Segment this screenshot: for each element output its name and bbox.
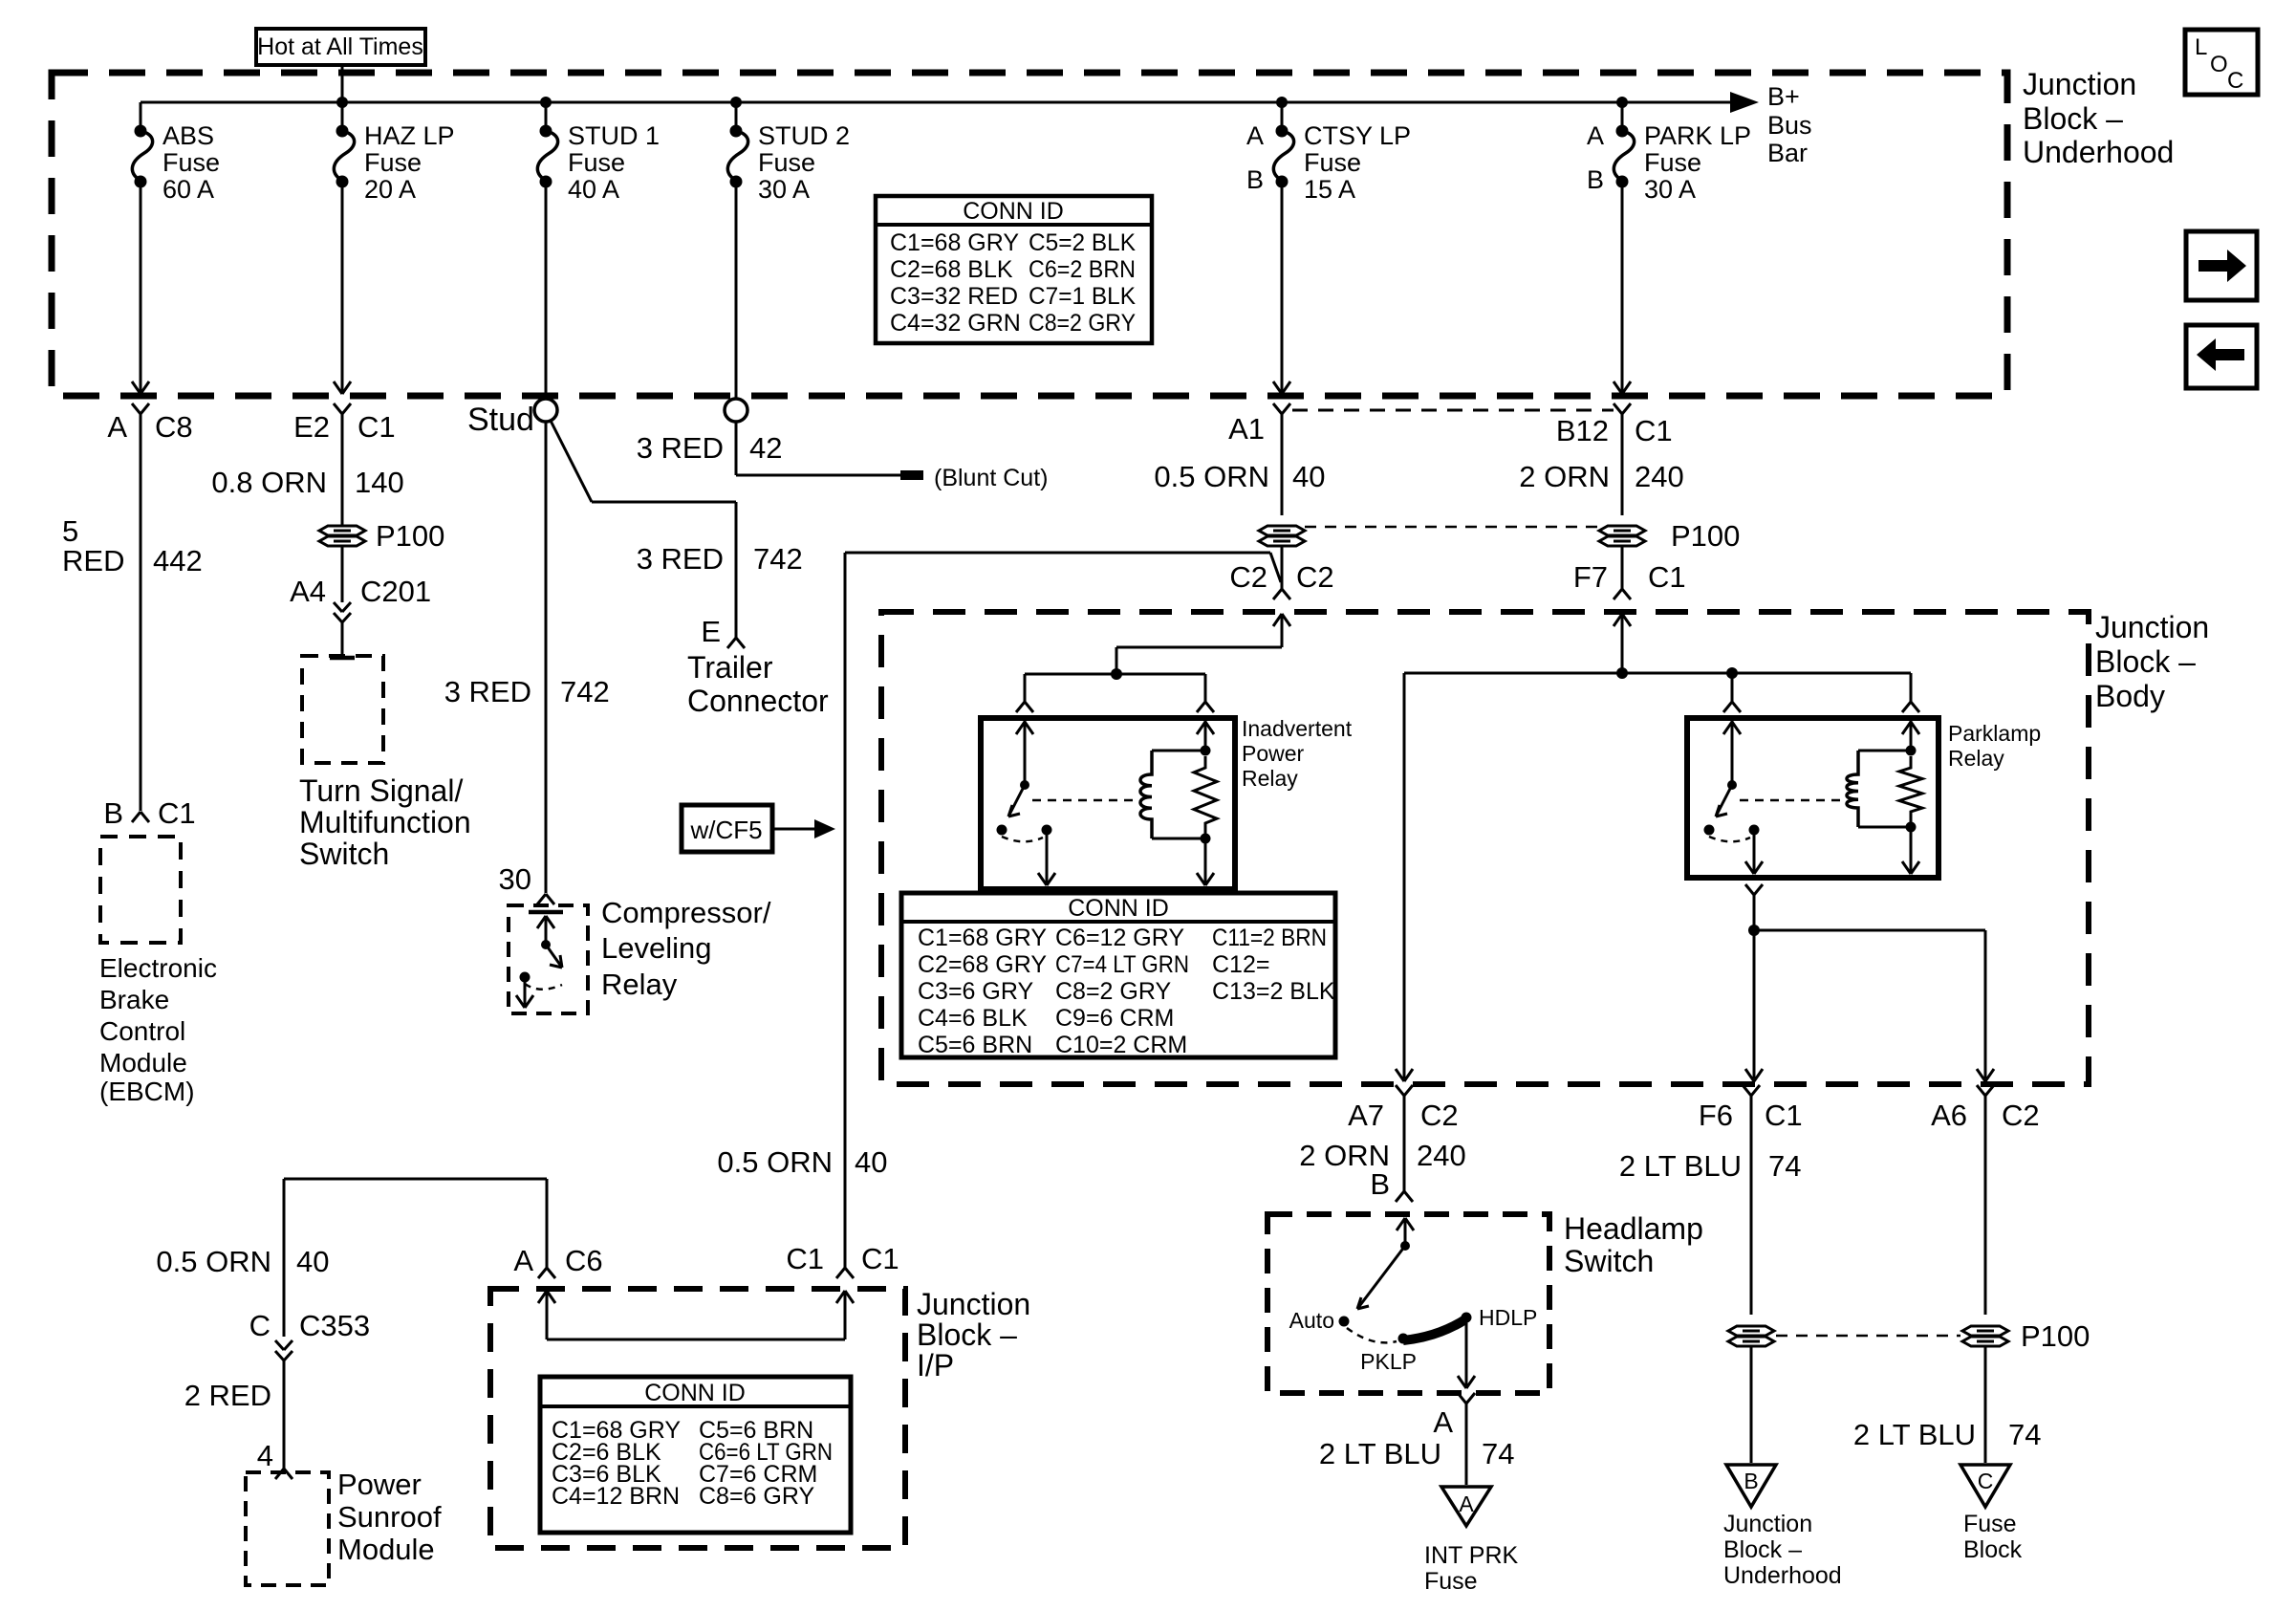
svg-text:C353: C353	[299, 1309, 370, 1342]
svg-text:A6: A6	[1931, 1099, 1967, 1132]
svg-text:C1: C1	[1765, 1099, 1803, 1132]
compressor relay movable contact	[546, 945, 562, 968]
connector C2 terminal A7 (fork)	[1396, 1085, 1404, 1096]
svg-text:Bus: Bus	[1767, 111, 1812, 140]
svg-text:F7: F7	[1573, 560, 1608, 594]
svg-text:E2: E2	[293, 410, 330, 444]
wire: 0.8 ORN below P100	[341, 546, 344, 602]
svg-text:C2=68 BLK: C2=68 BLK	[890, 256, 1013, 283]
svg-text:2 ORN: 2 ORN	[1519, 460, 1610, 493]
fuse ABS 60A	[135, 125, 147, 138]
svg-text:Fuse: Fuse	[758, 148, 815, 177]
svg-text:0.8 ORN: 0.8 ORN	[211, 466, 327, 499]
svg-text:L: L	[2195, 34, 2207, 60]
svg-text:Block: Block	[1963, 1536, 2023, 1563]
inline connector dashed link	[1292, 409, 1614, 412]
blunt cut end bar	[900, 470, 923, 480]
svg-text:C12=: C12=	[1212, 951, 1269, 978]
wire: I/P internal link	[547, 1339, 845, 1341]
svg-text:3 RED: 3 RED	[444, 675, 531, 708]
svg-text:C8=2 GRY: C8=2 GRY	[1055, 978, 1171, 1005]
svg-text:CONN ID: CONN ID	[644, 1380, 746, 1406]
svg-text:Inadvertent: Inadvertent	[1242, 716, 1353, 741]
svg-text:C1: C1	[1635, 414, 1673, 447]
svg-text:Fuse: Fuse	[1644, 148, 1701, 177]
connector C1 terminal A1 (fork)	[1273, 403, 1282, 414]
node: parklamp output junction	[1748, 925, 1760, 936]
svg-text:4: 4	[257, 1439, 273, 1472]
wire: C2 to relay feed	[1116, 646, 1282, 649]
svg-text:C2: C2	[1296, 560, 1334, 594]
svg-text:B12: B12	[1556, 414, 1609, 447]
svg-text:P100: P100	[376, 519, 444, 553]
C6 entry arrow	[538, 1291, 547, 1303]
flag box: w/CF5	[682, 805, 772, 852]
wire: bus drop to CTSY LP fuse	[1281, 102, 1284, 127]
svg-text:Electronic: Electronic	[99, 953, 217, 983]
svg-text:C4=32 GRN: C4=32 GRN	[890, 310, 1021, 337]
svg-text:Block –: Block –	[917, 1317, 1017, 1352]
node: F7 junction	[1616, 667, 1628, 679]
wire: parklamp feed bus	[1404, 672, 1911, 675]
svg-text:30 A: 30 A	[758, 175, 810, 204]
power sunroof module box (dashed)	[246, 1472, 329, 1585]
svg-text:Power: Power	[1242, 741, 1305, 766]
svg-text:A: A	[513, 1244, 533, 1277]
svg-text:C2=68 GRY: C2=68 GRY	[918, 951, 1047, 978]
contact: Auto	[1339, 1317, 1350, 1327]
connector C8 terminal A (fork)	[132, 403, 141, 414]
wire: stud1 diagonal feed	[551, 421, 592, 502]
power sunroof input fork	[275, 1469, 284, 1479]
svg-text:40: 40	[1292, 460, 1325, 493]
svg-text:C9=6 CRM: C9=6 CRM	[1055, 1005, 1174, 1032]
svg-text:PKLP: PKLP	[1360, 1349, 1417, 1374]
svg-text:C13=2 BLK: C13=2 BLK	[1212, 978, 1335, 1005]
nav box: arrow right	[2186, 231, 2257, 300]
svg-text:C5=2 BLK: C5=2 BLK	[1029, 229, 1136, 256]
svg-text:C7=4 LT GRN: C7=4 LT GRN	[1055, 951, 1189, 978]
svg-text:C6=12 GRY: C6=12 GRY	[1055, 925, 1184, 951]
svg-text:C4=6 BLK: C4=6 BLK	[918, 1005, 1028, 1032]
svg-text:Brake: Brake	[99, 985, 169, 1014]
triangle connector B	[1726, 1465, 1776, 1507]
svg-text:742: 742	[560, 675, 610, 708]
connector C1/C1 fork	[836, 1268, 845, 1278]
svg-text:w/CF5: w/CF5	[689, 816, 762, 844]
fuse STUD 1 40A	[540, 125, 552, 138]
svg-text:Junction: Junction	[917, 1287, 1030, 1321]
wire: 2 ORN to F7	[1621, 546, 1624, 589]
svg-text:Compressor/: Compressor/	[601, 896, 771, 929]
trailer connector fork	[727, 638, 736, 648]
connector C2 terminal A6 (fork)	[1977, 1085, 1985, 1096]
svg-text:Block –: Block –	[2023, 101, 2123, 136]
parklamp relay	[1687, 718, 1939, 878]
wire: blunt cut stub	[736, 474, 900, 477]
wire: F6 to triangle B	[1750, 1346, 1753, 1463]
wire: B+ bus bar	[141, 101, 1747, 104]
wire: HDLP output arrow	[1465, 1317, 1468, 1386]
stud terminal 2 (circle)	[725, 399, 747, 422]
svg-text:STUD 1: STUD 1	[568, 121, 660, 150]
svg-text:Connector: Connector	[687, 684, 829, 718]
svg-text:B: B	[1744, 1469, 1758, 1493]
wire: into turn signal switch	[341, 622, 344, 658]
svg-text:Power: Power	[337, 1468, 422, 1501]
wire: F6 exit arrow	[1745, 1069, 1754, 1081]
wire: ABS fuse to border	[140, 182, 142, 392]
compressor relay input fork	[537, 894, 546, 904]
wire: 0.8 ORN 140 upper	[341, 414, 344, 525]
svg-text:Relay: Relay	[601, 968, 678, 1001]
svg-text:C2: C2	[1420, 1099, 1459, 1132]
dashed arc Auto-PKLP	[1347, 1328, 1397, 1342]
compressor relay output arrow	[524, 977, 527, 1006]
svg-text:PARK LP: PARK LP	[1644, 121, 1751, 150]
svg-text:B: B	[103, 796, 123, 830]
svg-text:A: A	[1587, 121, 1604, 150]
label box: Hot at All Times	[256, 29, 425, 65]
connector P100 (A6 circuit)	[1962, 1326, 2008, 1336]
wire: 3 RED 742 long drop	[545, 422, 548, 893]
headlamp switch wiper arrow	[1357, 1246, 1405, 1309]
svg-text:Junction: Junction	[1723, 1511, 1812, 1537]
svg-text:Body: Body	[2095, 679, 2165, 713]
wire: HAZ fuse to border	[341, 182, 344, 392]
svg-text:Fuse: Fuse	[1304, 148, 1361, 177]
wire: jumper to stud2 drop	[592, 501, 736, 504]
compressor relay armature arrow	[545, 918, 548, 945]
svg-text:40: 40	[296, 1245, 329, 1278]
wire: 5 RED 442	[140, 414, 142, 811]
svg-text:Fuse: Fuse	[364, 148, 422, 177]
svg-text:C2: C2	[2002, 1099, 2040, 1132]
wire: CTSY fuse to border	[1281, 182, 1284, 392]
svg-text:Hot at All Times: Hot at All Times	[257, 33, 423, 60]
connector P100 (HAZ circuit)	[319, 526, 365, 535]
nav box: arrow left	[2186, 325, 2257, 388]
svg-text:INT PRK: INT PRK	[1424, 1542, 1518, 1569]
svg-text:(EBCM): (EBCM)	[99, 1077, 195, 1106]
svg-text:B+: B+	[1767, 82, 1800, 111]
svg-text:3 RED: 3 RED	[637, 542, 724, 576]
EBCM box (dashed)	[100, 837, 181, 943]
headlamp switch input fork	[1396, 1191, 1404, 1202]
svg-text:F6: F6	[1699, 1099, 1733, 1132]
triangle connector C	[1960, 1465, 2010, 1507]
svg-text:Underhood: Underhood	[1723, 1562, 1842, 1589]
node: bus junction at CTSY LP	[1276, 97, 1288, 108]
svg-text:0.5 ORN: 0.5 ORN	[717, 1145, 833, 1179]
node: bus junction at PARK LP	[1616, 97, 1628, 108]
svg-text:CTSY LP: CTSY LP	[1304, 121, 1411, 150]
wire: 0.5 ORN to C2	[1281, 546, 1284, 589]
svg-text:C1: C1	[357, 410, 396, 444]
node: parklamp pin30 junction	[1726, 667, 1738, 679]
connector C1 terminal B (fork)	[132, 812, 141, 822]
svg-text:140: 140	[355, 466, 404, 499]
wire: 0.5 ORN 40	[1281, 414, 1284, 515]
w/CF5 arrow	[772, 828, 814, 831]
svg-text:20 A: 20 A	[364, 175, 416, 204]
svg-text:P100: P100	[1671, 519, 1740, 553]
svg-text:HDLP: HDLP	[1479, 1305, 1537, 1330]
wire: 0.5 ORN 40 long drop	[844, 553, 847, 1268]
svg-text:B: B	[1370, 1167, 1390, 1201]
fuse STUD 2 30A	[730, 125, 743, 138]
compressor relay contact bar	[529, 910, 563, 915]
svg-text:Fuse: Fuse	[162, 148, 220, 177]
headlamp switch box (dashed)	[1267, 1214, 1549, 1393]
svg-text:A7: A7	[1348, 1099, 1384, 1132]
svg-text:15 A: 15 A	[1304, 175, 1355, 204]
wire: 2 ORN 240	[1621, 414, 1624, 515]
wire: 2 LT BLU 74 (A6)	[1984, 1096, 1987, 1315]
svg-text:A: A	[1246, 121, 1264, 150]
svg-text:Underhood: Underhood	[2023, 135, 2174, 169]
svg-text:A4: A4	[290, 575, 326, 608]
connector P100 (F6 circuit)	[1728, 1326, 1774, 1336]
stud terminal 1 (circle)	[534, 399, 557, 422]
svg-text:Headlamp: Headlamp	[1564, 1211, 1703, 1246]
svg-text:0.5 ORN: 0.5 ORN	[1154, 460, 1269, 493]
svg-text:C6=2 BRN: C6=2 BRN	[1029, 256, 1136, 283]
connector P100 (PARK circuit)	[1599, 526, 1645, 535]
svg-text:3 RED: 3 RED	[637, 431, 724, 465]
svg-text:Parklamp: Parklamp	[1948, 721, 2041, 746]
contact: HDLP	[1462, 1313, 1472, 1323]
terminal bar in switch	[330, 656, 355, 661]
svg-text:Module: Module	[99, 1048, 187, 1078]
svg-text:Auto: Auto	[1289, 1308, 1334, 1333]
svg-text:P100: P100	[2021, 1319, 2090, 1353]
contact: PKLP	[1398, 1334, 1409, 1344]
svg-text:STUD 2: STUD 2	[758, 121, 850, 150]
svg-text:Stud: Stud	[467, 402, 534, 438]
fuse HAZ LP 20A	[336, 125, 349, 138]
svg-text:2 LT BLU: 2 LT BLU	[1619, 1149, 1742, 1183]
junction block body (dashed outline)	[881, 612, 2089, 1084]
junction block underhood (dashed outline)	[52, 73, 2007, 396]
wire: STUD 1 fuse to stud	[545, 182, 548, 400]
node: bus junction at HAZ LP	[336, 97, 348, 108]
F7 entry arrow	[1621, 615, 1624, 673]
svg-text:74: 74	[2008, 1418, 2041, 1451]
connector F7/C1 fork	[1614, 589, 1622, 599]
svg-text:30: 30	[499, 862, 531, 896]
thick contact band PKLP-HDLP	[1403, 1319, 1465, 1340]
svg-text:Leveling: Leveling	[601, 931, 711, 965]
svg-text:30 A: 30 A	[1644, 175, 1696, 204]
table: CONN ID (underhood)	[876, 196, 1152, 343]
inadvertent relay pin86 fork	[1197, 702, 1205, 712]
svg-text:742: 742	[753, 542, 803, 576]
compressor/leveling relay box (dashed)	[509, 905, 588, 1013]
connector C353 (double chevron)	[275, 1340, 284, 1350]
svg-text:74: 74	[1482, 1437, 1514, 1470]
svg-text:(Blunt Cut): (Blunt Cut)	[934, 465, 1048, 491]
svg-text:Junction: Junction	[2023, 67, 2136, 101]
junction block I/P (dashed outline)	[490, 1289, 905, 1548]
svg-text:C8=6 GRY: C8=6 GRY	[699, 1483, 814, 1510]
wire: bus drop to STUD 1 fuse	[545, 102, 548, 127]
svg-text:5: 5	[62, 514, 78, 548]
wire: relay feed bus	[1025, 673, 1205, 676]
headlamp output fork	[1458, 1393, 1466, 1404]
svg-text:C1: C1	[158, 796, 196, 830]
svg-text:Relay: Relay	[1242, 766, 1298, 791]
svg-text:C1=68 GRY: C1=68 GRY	[918, 925, 1047, 951]
svg-text:C: C	[1978, 1469, 1994, 1493]
compressor relay contact dot	[520, 972, 531, 983]
connector C2/C2 fork	[1273, 589, 1282, 599]
svg-text:74: 74	[1768, 1149, 1801, 1183]
fuse PARK LP 30A	[1616, 125, 1629, 138]
wire: 3 RED 742 to trailer connector	[735, 502, 738, 638]
wire: bus drop to HAZ LP fuse	[341, 102, 344, 127]
svg-text:C: C	[249, 1309, 271, 1342]
svg-text:Module: Module	[337, 1533, 435, 1566]
svg-text:Fuse: Fuse	[1963, 1511, 2017, 1537]
svg-text:C4=12 BRN: C4=12 BRN	[552, 1483, 680, 1510]
headlamp switch input arrow	[1404, 1220, 1407, 1246]
table: CONN ID (I/P)	[540, 1377, 851, 1533]
C2 entry arrow	[1281, 615, 1284, 647]
svg-text:C7=1 BLK: C7=1 BLK	[1029, 283, 1136, 310]
wire: A7 exit arrow	[1396, 1069, 1404, 1081]
svg-text:2 LT BLU: 2 LT BLU	[1853, 1418, 1976, 1451]
wire: 2 RED	[283, 1361, 286, 1469]
svg-text:2 LT BLU: 2 LT BLU	[1319, 1437, 1441, 1470]
svg-text:C3=6 GRY: C3=6 GRY	[918, 978, 1033, 1005]
svg-text:Bar: Bar	[1767, 139, 1808, 167]
svg-text:0.5 ORN: 0.5 ORN	[156, 1245, 271, 1278]
fuse CTSY LP 15A	[1276, 125, 1289, 138]
svg-text:Trailer: Trailer	[687, 650, 773, 685]
node: relay feed junction	[1111, 668, 1122, 680]
svg-text:C3=32 RED: C3=32 RED	[890, 283, 1018, 310]
svg-text:E: E	[701, 615, 721, 648]
LOC reference box	[2185, 30, 2258, 95]
svg-text:C2: C2	[1229, 560, 1267, 594]
P100 dashed pairing link (bottom)	[1776, 1335, 1960, 1338]
svg-text:Switch: Switch	[1564, 1244, 1654, 1278]
svg-text:C1: C1	[1648, 560, 1686, 594]
svg-text:CONN ID: CONN ID	[1068, 895, 1169, 922]
inadvertent relay pin30 fork	[1016, 702, 1025, 712]
svg-text:Block –: Block –	[1723, 1536, 1802, 1563]
svg-text:B: B	[1587, 165, 1604, 194]
svg-text:Multifunction: Multifunction	[299, 805, 471, 839]
connector C201 (double chevron)	[334, 602, 342, 612]
connector C6 terminal A (fork)	[538, 1268, 547, 1278]
connector P100 (CTSY circuit)	[1259, 526, 1305, 535]
svg-text:CONN ID: CONN ID	[963, 198, 1064, 225]
parklamp relay pin30 fork	[1723, 702, 1732, 712]
svg-text:C8: C8	[155, 410, 193, 444]
svg-text:C: C	[2227, 68, 2243, 94]
wire: branch to A6 exit	[1754, 929, 1985, 932]
wire: hot feed into bus	[341, 65, 344, 102]
compressor relay dashed arc	[525, 984, 562, 990]
svg-text:Fuse: Fuse	[1424, 1568, 1478, 1595]
wire: bus drop to STUD 2 fuse	[735, 102, 738, 127]
connector C1 terminal E2 (fork)	[334, 403, 342, 414]
svg-text:40 A: 40 A	[568, 175, 619, 204]
node: bus junction at STUD 1	[540, 97, 552, 108]
parklamp relay pin86 fork	[1902, 702, 1911, 712]
svg-text:C6: C6	[565, 1244, 603, 1277]
connector C1 terminal F6 (fork)	[1743, 1085, 1751, 1096]
svg-text:240: 240	[1635, 460, 1684, 493]
wire: 2 LT BLU 74 to INT PRK	[1465, 1404, 1468, 1485]
svg-text:Sunroof: Sunroof	[337, 1500, 442, 1534]
svg-text:Fuse: Fuse	[568, 148, 625, 177]
parklamp relay output fork	[1745, 884, 1754, 895]
wire: bus drop to PARK LP fuse	[1621, 102, 1624, 127]
C1 entry arrow	[844, 1293, 847, 1339]
svg-text:A: A	[1433, 1405, 1453, 1439]
wire: 0.5 ORN 40 branch	[284, 1178, 547, 1181]
wire: STUD 2 fuse to stud	[735, 182, 738, 400]
connector C1 terminal B12 (fork)	[1614, 403, 1622, 414]
svg-text:40: 40	[855, 1145, 887, 1179]
svg-text:C11=2 BRN: C11=2 BRN	[1212, 925, 1327, 951]
svg-text:240: 240	[1417, 1139, 1466, 1172]
svg-text:2 RED: 2 RED	[184, 1379, 271, 1412]
inadvertent power relay	[981, 718, 1235, 889]
svg-text:ABS: ABS	[162, 121, 214, 150]
svg-text:A: A	[1459, 1491, 1474, 1516]
svg-text:C201: C201	[360, 575, 431, 608]
wire: bus drop to ABS fuse	[140, 102, 142, 127]
P100 dashed pairing link	[1305, 526, 1597, 529]
svg-text:442: 442	[153, 544, 203, 577]
node: bus junction at STUD 2	[730, 97, 742, 108]
svg-text:Junction: Junction	[2095, 610, 2209, 644]
svg-text:C10=2 CRM: C10=2 CRM	[1055, 1032, 1187, 1058]
svg-text:C8=2 GRY: C8=2 GRY	[1029, 310, 1136, 337]
svg-text:60 A: 60 A	[162, 175, 214, 204]
wire: 3 RED 42	[735, 422, 738, 475]
svg-text:42: 42	[749, 431, 782, 465]
wire: 2 ORN 240 to headlamp switch	[1403, 1096, 1406, 1191]
svg-text:A: A	[107, 410, 127, 444]
wire: A6 exit arrow	[1977, 1069, 1985, 1081]
svg-text:B: B	[1246, 165, 1264, 194]
svg-text:Block –: Block –	[2095, 644, 2196, 679]
svg-text:A1: A1	[1228, 412, 1265, 446]
B+ bus bar arrowhead	[1730, 92, 1759, 113]
svg-text:Control: Control	[99, 1016, 185, 1046]
svg-text:Relay: Relay	[1948, 746, 2004, 771]
svg-text:O: O	[2210, 52, 2228, 77]
svg-text:RED: RED	[62, 544, 124, 577]
svg-text:HAZ LP: HAZ LP	[364, 121, 455, 150]
svg-text:C1: C1	[786, 1242, 824, 1275]
svg-text:C1: C1	[861, 1242, 899, 1275]
wire: branch to junction block I/P	[845, 552, 1270, 555]
turn signal / multifunction switch box (dashed)	[302, 656, 383, 763]
wire: 2 LT BLU 74 (F6)	[1750, 1096, 1753, 1315]
svg-text:C1=68 GRY: C1=68 GRY	[890, 229, 1019, 256]
svg-text:C5=6 BRN: C5=6 BRN	[918, 1032, 1032, 1058]
svg-text:I/P: I/P	[917, 1348, 954, 1382]
table: CONN ID (body)	[901, 893, 1335, 1057]
headlamp switch pivot	[1400, 1241, 1410, 1251]
triangle connector A	[1441, 1487, 1491, 1526]
